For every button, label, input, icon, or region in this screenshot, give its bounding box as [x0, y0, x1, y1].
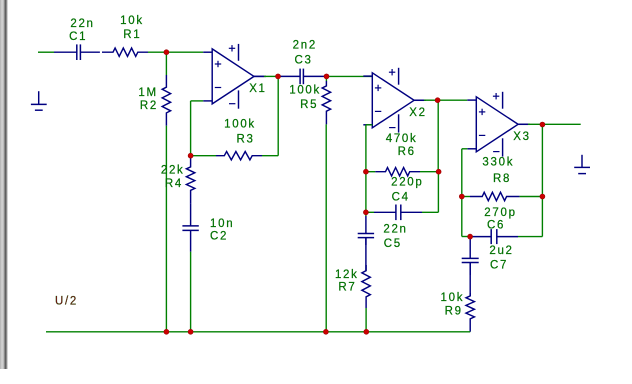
wire: R8 right connection	[520, 196, 543, 198]
X2 inverting input stub	[363, 124, 372, 126]
junction dot: bottom rail / C2	[188, 329, 193, 334]
svg-text:C1: C1	[69, 31, 87, 43]
svg-text:R5: R5	[300, 99, 318, 111]
wire: X1 output junction down to R3	[277, 76, 279, 155]
svg-text:X1: X1	[249, 83, 266, 95]
X2 positive power pin	[398, 68, 400, 85]
X3 non-inverting input stub	[467, 99, 476, 101]
junction dot: C3/R5/X2+ node	[324, 74, 329, 79]
svg-text:R1: R1	[123, 29, 141, 41]
wire: junction to X1 + input	[166, 51, 203, 53]
wire: junction up to X1 - input	[190, 101, 192, 156]
wire: R3 right to feedback column	[262, 155, 278, 157]
svg-text:470k: 470k	[386, 133, 418, 145]
resistor R7 (vertical)	[362, 265, 370, 308]
X2 triangle body	[372, 73, 414, 128]
svg-text:R3: R3	[236, 133, 254, 145]
resistor R1 (horizontal)	[102, 48, 148, 56]
X3 positive power marker +	[493, 93, 499, 99]
op-amp X3	[467, 92, 528, 157]
junction dot: R8 left node	[459, 194, 464, 199]
resistor R6 (horizontal)	[375, 168, 420, 176]
junction dot: X2 output node	[435, 98, 440, 103]
svg-text:2n2: 2n2	[293, 39, 317, 51]
X1 triangle body	[212, 49, 254, 104]
wire: X2 output to X3 + input	[438, 99, 468, 101]
svg-text:22k: 22k	[161, 165, 185, 177]
junction dot: X1 output node	[276, 74, 281, 79]
wire: X3 output down to R8	[541, 124, 543, 196]
capacitor C4 (horizontal)	[374, 205, 422, 221]
svg-text:R2: R2	[140, 100, 158, 112]
wire: R8 left connection	[462, 196, 470, 198]
X3 positive power pin	[502, 92, 504, 109]
svg-text:10k: 10k	[120, 15, 144, 27]
wire: junction to C4	[366, 211, 374, 213]
svg-text:U/2: U/2	[55, 296, 78, 308]
wire: junction down to R5	[325, 76, 327, 81]
wire: X3 - input connection	[462, 148, 468, 150]
wire: R7 to bottom rail	[365, 308, 367, 332]
wire: C2 to bottom rail	[190, 252, 192, 332]
junction dot: R1/R2/X1+ node	[164, 50, 169, 55]
wire: C6 up to R8 right junction	[541, 197, 543, 237]
svg-text:R4: R4	[165, 178, 183, 190]
X1 output stub	[254, 75, 264, 77]
svg-text:R8: R8	[493, 173, 511, 185]
wire: X2 feedback column	[365, 125, 367, 172]
junction dot: bottom rail / R5	[323, 329, 328, 334]
resistor R4 (vertical)	[186, 158, 194, 204]
wire: bottom rail	[46, 331, 470, 333]
svg-text:10k: 10k	[441, 292, 465, 304]
X2 inverting input marker -	[375, 110, 381, 112]
op-amp X1	[203, 44, 264, 109]
svg-text:R7: R7	[338, 282, 356, 294]
capacitor C3 (horizontal)	[280, 69, 325, 85]
wire: C5 to R7 lead	[365, 238, 367, 271]
junction dot: C4 left node	[363, 210, 368, 215]
X1 non-inverting input stub	[203, 51, 212, 53]
ground symbol (output)	[574, 155, 590, 174]
X3 triangle body	[476, 97, 518, 152]
X3 negative power pin	[502, 138, 504, 156]
X2 output stub	[414, 99, 424, 101]
svg-text:R6: R6	[398, 146, 416, 158]
wire: C4 up to R6 right junction	[437, 172, 439, 213]
wire: C6 right	[518, 236, 542, 238]
wire: R6 left connection	[366, 171, 375, 173]
wire: junction down to R2	[165, 52, 167, 75]
X3 non-inverting input marker +	[479, 109, 485, 115]
svg-text:22n: 22n	[383, 223, 407, 235]
X3 inverting input stub	[467, 148, 476, 150]
svg-text:C2: C2	[210, 230, 228, 242]
junction dot: R6 left node	[363, 169, 368, 174]
svg-text:12k: 12k	[335, 269, 359, 281]
junction dot: bottom rail / R7	[364, 329, 369, 334]
wire: X3 feedback column	[461, 149, 463, 237]
junction dot: X3 output node	[540, 122, 545, 127]
capacitor C6 (horizontal)	[470, 229, 518, 244]
wire: R6 right connection	[420, 171, 439, 173]
wire: C7 to R9	[469, 263, 471, 296]
X2 non-inverting input marker +	[375, 85, 381, 91]
wire: feedback to C6/C7 junction	[462, 236, 470, 238]
X2 non-inverting input stub	[363, 75, 372, 77]
svg-text:100k: 100k	[224, 119, 256, 131]
svg-text:C6: C6	[487, 220, 505, 232]
resistor R5 (vertical)	[322, 81, 330, 124]
X3 negative power marker -	[493, 151, 499, 153]
wire: input stub	[38, 51, 54, 53]
X1 positive power marker +	[229, 45, 235, 51]
svg-text:X3: X3	[513, 131, 530, 143]
X2 negative power pin	[398, 114, 400, 132]
X1 inverting input stub	[203, 100, 212, 102]
resistor R2 (vertical)	[162, 75, 170, 126]
wire: R5 to bottom rail	[325, 124, 327, 331]
X1 non-inverting input marker +	[215, 61, 221, 67]
svg-text:C3: C3	[295, 55, 313, 67]
X1 inverting input marker -	[215, 87, 221, 89]
resistor R3 (horizontal)	[216, 152, 262, 160]
svg-text:2u2: 2u2	[489, 245, 513, 257]
wire: X2 output lead	[414, 99, 426, 101]
wire: R2 to bottom rail	[165, 126, 167, 332]
svg-text:220p: 220p	[391, 177, 423, 189]
wire: X2 output junction down to R6	[437, 100, 439, 172]
svg-text:C4: C4	[392, 191, 410, 203]
X1 negative power marker -	[229, 103, 235, 105]
resistor R9 (vertical)	[466, 293, 474, 332]
capacitor C2 (vertical)	[182, 204, 198, 252]
svg-text:C5: C5	[384, 238, 402, 250]
svg-text:X2: X2	[409, 107, 426, 119]
ground symbol (input)	[31, 91, 47, 110]
wire: junction down to C4 row	[365, 172, 367, 216]
wire: X2 output to junction	[424, 99, 438, 101]
junction dot: R3/R4/X1- node	[188, 153, 193, 158]
svg-text:270p: 270p	[484, 207, 516, 219]
wire: X3 output lead	[518, 123, 530, 125]
X3 output stub	[518, 123, 528, 125]
X2 negative power marker -	[389, 127, 395, 129]
svg-text:100k: 100k	[289, 85, 321, 97]
wire: R3 left to junction	[191, 155, 216, 157]
X1 positive power pin	[238, 44, 240, 61]
wire: X1 output to junction	[264, 75, 278, 77]
wire: R1 to junction	[148, 51, 166, 53]
svg-text:R9: R9	[445, 306, 463, 318]
junction dot: R8 right node	[540, 194, 545, 199]
capacitor C5 (vertical)	[358, 216, 374, 245]
junction dot: C6/C7 node	[468, 234, 473, 239]
svg-text:22n: 22n	[70, 18, 94, 30]
svg-text:330k: 330k	[482, 156, 514, 168]
junction dot: bottom rail / R2	[164, 329, 169, 334]
op-amp X2	[363, 68, 424, 133]
X3 inverting input marker -	[479, 134, 485, 136]
wire: X3 output to junction	[528, 123, 542, 125]
X2 positive power marker +	[389, 69, 395, 75]
wire: X1 output lead	[254, 75, 266, 77]
capacitor C7 (vertical)	[462, 239, 479, 275]
X1 negative power pin	[238, 90, 240, 108]
wire: X3 output stub right	[542, 123, 580, 125]
wire: to X1 inverting input	[191, 100, 204, 102]
svg-text:C7: C7	[490, 259, 508, 271]
resistor R8 (horizontal)	[470, 192, 520, 200]
window edge bar	[0, 0, 8, 369]
wire: C3 to X2 + input	[325, 75, 373, 77]
svg-text:1M: 1M	[138, 87, 157, 99]
junction dot: R6 right node	[436, 169, 441, 174]
svg-text:10n: 10n	[210, 218, 234, 230]
wire: to X2 inverting input	[366, 124, 372, 126]
capacitor C1 (horizontal)	[54, 44, 100, 60]
wire: C4 right	[422, 211, 438, 213]
